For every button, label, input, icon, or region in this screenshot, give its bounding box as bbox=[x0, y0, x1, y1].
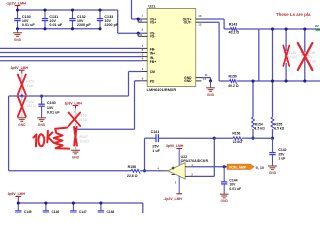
svg-text:GND: GND bbox=[184, 79, 192, 83]
svg-text:0.01 uF: 0.01 uF bbox=[229, 187, 241, 191]
wire OUT- to R150 bbox=[202, 21, 220, 23]
pin 7 FB- bbox=[141, 47, 147, 49]
wire OUT+ net to right edge bbox=[237, 28, 320, 30]
red X over R151 bbox=[18, 75, 26, 95]
svg-text:1 kΩ: 1 kΩ bbox=[26, 84, 34, 88]
capacitor C145 (clipped) bbox=[17, 203, 19, 210]
svg-text:GND: GND bbox=[221, 199, 229, 203]
svg-text:GND: GND bbox=[14, 38, 22, 42]
pin 13 OUT+ bbox=[196, 18, 202, 20]
wire PD net bbox=[135, 80, 142, 82]
wire CM net left drop bbox=[8, 96, 10, 171]
svg-text:R150: R150 bbox=[229, 74, 237, 78]
resistor R154 1.5 kohm bbox=[252, 81, 254, 117]
resistor R156 10 kohm bbox=[233, 137, 242, 141]
pin 15 VS- bbox=[141, 35, 147, 37]
ground under R157 bbox=[71, 149, 80, 151]
junction feedback tap bbox=[213, 137, 216, 140]
junction C133 bottom bbox=[98, 27, 101, 30]
wire -1p2V rail drop to VS- pins bbox=[117, 10, 119, 33]
wire feedback drop to pin 3 bbox=[213, 138, 215, 176]
wire GND bottom rail of cap bank bbox=[18, 28, 101, 30]
pin 5 IN- bbox=[141, 56, 147, 58]
svg-text:0.01 uF: 0.01 uF bbox=[47, 110, 60, 114]
pin 3 IN+ bbox=[185, 175, 190, 177]
pin 2 V- bbox=[178, 176, 180, 193]
svg-text:GND: GND bbox=[72, 155, 80, 159]
svg-text:C148: C148 bbox=[107, 210, 115, 213]
plus input mark bbox=[172, 167, 175, 169]
svg-text:2200 pF: 2200 pF bbox=[104, 23, 118, 27]
red X over C136 bbox=[298, 43, 313, 70]
svg-text:GND: GND bbox=[269, 171, 277, 175]
junction L2 top bbox=[271, 27, 274, 30]
junction C132 top bbox=[71, 8, 74, 11]
ground under C142 bbox=[268, 165, 277, 167]
red X over R153 bbox=[69, 113, 81, 127]
capacitor C148 (clipped) bbox=[100, 203, 102, 210]
wire OUT- net to right edge bbox=[237, 80, 320, 82]
svg-text:CM: CM bbox=[150, 70, 155, 74]
junction C146 top bbox=[44, 201, 47, 204]
wire CM net horizontal bbox=[9, 95, 129, 97]
junction C145 top bbox=[17, 201, 20, 204]
svg-text:R156: R156 bbox=[232, 131, 240, 135]
capacitor C142 1uF bbox=[272, 138, 274, 152]
svg-text:0.01 uF: 0.01 uF bbox=[49, 23, 62, 27]
svg-text:25V: 25V bbox=[152, 145, 159, 149]
junction C132 bottom bbox=[71, 27, 74, 30]
wire GND pins join bbox=[202, 77, 211, 79]
handwritten annotation 10k resistor bbox=[33, 128, 69, 149]
capacitor C147 (clipped) bbox=[72, 203, 74, 210]
capacitor C144 0.01uF bbox=[223, 167, 225, 182]
resistor R151 1 kohm (DNP ghost) bbox=[21, 74, 23, 78]
resistor R152 100 ohm (DNP ghost) bbox=[21, 96, 23, 100]
junction R151/R152/CM wire bbox=[20, 94, 23, 97]
junction GND pins bbox=[209, 79, 212, 82]
pin 2 CM bbox=[141, 71, 147, 73]
junction L2 bottom bbox=[271, 79, 274, 82]
pin 4 FB+ bbox=[141, 60, 147, 62]
svg-text:-1p2V_LMH: -1p2V_LMH bbox=[6, 1, 26, 5]
wire VS+ supply from top edge bbox=[131, 0, 133, 19]
resistor R155 1.5 kohm bbox=[271, 117, 275, 129]
svg-text:3p9V_LMH: 3p9V_LMH bbox=[11, 66, 29, 70]
junction U22 out bbox=[223, 165, 226, 168]
svg-text:VS+: VS+ bbox=[150, 21, 156, 25]
ground under C140 bbox=[37, 117, 46, 119]
svg-text:13: 13 bbox=[198, 14, 202, 18]
svg-text:C141: C141 bbox=[151, 130, 160, 134]
capacitor C136 3.7pF (DNP ghost) bbox=[304, 29, 306, 53]
pin 11 GND bbox=[196, 77, 202, 79]
svg-text:FB+: FB+ bbox=[150, 60, 156, 64]
ground under R152 bbox=[17, 117, 26, 119]
svg-text:GND: GND bbox=[207, 93, 215, 97]
svg-text:C146: C146 bbox=[52, 210, 60, 213]
wire CM net bottom run bbox=[9, 170, 131, 172]
svg-text:3p9V_LMH: 3p9V_LMH bbox=[8, 192, 26, 196]
svg-text:VCM_AMP: VCM_AMP bbox=[229, 165, 247, 169]
junction C141/R158 bbox=[143, 169, 146, 172]
pin 4 IN- (apex) bbox=[164, 170, 168, 172]
wire R156 to divider bbox=[242, 137, 253, 139]
junction R145 bottom bbox=[285, 79, 288, 82]
red X over R157 (handwritten emphasis) bbox=[74, 127, 77, 146]
svg-text:9, 10: 9, 10 bbox=[256, 166, 264, 170]
resistor R153 10 kohm (DNP ghost) bbox=[75, 109, 77, 112]
pin 16 VS+ bbox=[141, 21, 147, 23]
ground under C144 bbox=[220, 193, 229, 195]
inductor L (left, between OUT+ and OUT-) bbox=[258, 29, 260, 81]
wire C141 left riser bbox=[144, 138, 146, 171]
capacitor C133 bbox=[99, 10, 101, 19]
wire IN+ net to left edge bbox=[0, 52, 141, 54]
wire IN- net to left edge bbox=[0, 56, 141, 58]
svg-text:OPA376AIDCKR: OPA376AIDCKR bbox=[181, 159, 209, 163]
wire R153 to PD riser bbox=[76, 128, 135, 130]
svg-text:10 kΩ: 10 kΩ bbox=[288, 55, 297, 59]
svg-text:3p9V_LMH: 3p9V_LMH bbox=[65, 101, 83, 105]
junction C140 top bbox=[40, 94, 43, 97]
minus input mark bbox=[172, 174, 175, 176]
resistor R150 40.2 ohm bbox=[230, 80, 237, 84]
junction C148 top bbox=[99, 201, 102, 204]
capacitor C130 bbox=[17, 10, 19, 19]
junction VS- pins bbox=[137, 32, 140, 35]
junction R145 top bbox=[285, 27, 288, 30]
resistor R143 40.2 ohm bbox=[230, 28, 237, 32]
pin 6 IN+ bbox=[141, 52, 147, 54]
junction R155 bottom bbox=[271, 137, 274, 140]
wire U22 V+ pin 5 bbox=[178, 149, 180, 166]
junction C130 bottom bbox=[16, 27, 19, 30]
pin 1 VS+ bbox=[141, 18, 147, 20]
pin 12 OUT- bbox=[196, 21, 202, 23]
svg-text:LMH6401IRMXR: LMH6401IRMXR bbox=[147, 87, 177, 92]
svg-text:C140: C140 bbox=[47, 101, 56, 105]
svg-text:R157: R157 bbox=[80, 135, 88, 139]
wire R158 to op-amp bbox=[140, 170, 164, 172]
svg-text:0.01 uF: 0.01 uF bbox=[22, 23, 35, 27]
resistor R145 10 kohm (DNP ghost) bbox=[285, 29, 287, 51]
wire -1p2V top rail bbox=[18, 9, 118, 11]
power flag -1p2V_LMH (U22) bbox=[176, 193, 182, 195]
svg-text:2200 pF: 2200 pF bbox=[77, 23, 91, 27]
pin 14 GND bbox=[196, 80, 202, 82]
pin 3 VS- bbox=[141, 32, 147, 34]
wire FB+ net to left edge bbox=[0, 60, 141, 62]
junction C136 top bbox=[303, 27, 306, 30]
svg-text:11: 11 bbox=[205, 73, 208, 77]
junction R154 bottom bbox=[251, 137, 254, 140]
svg-text:R143: R143 bbox=[229, 22, 237, 26]
ground at U21 GND pins bbox=[210, 81, 212, 88]
junction C131 bottom bbox=[43, 27, 46, 30]
pin 1 OUT bbox=[185, 166, 190, 168]
wire OUT+ to R143 bbox=[202, 18, 225, 20]
svg-text:GND: GND bbox=[38, 123, 46, 127]
svg-text:10 kΩ: 10 kΩ bbox=[78, 118, 87, 122]
op-amp U21 LMH6401 body bbox=[147, 9, 196, 87]
junction C130 top bbox=[16, 8, 19, 11]
capacitor C131 bbox=[44, 10, 46, 19]
svg-text:These Ls are pla: These Ls are pla bbox=[276, 12, 311, 17]
wire FB- net to left edge bbox=[0, 47, 141, 49]
net label VCM_AMP bbox=[227, 164, 254, 169]
wire 3p9V bottom rail bbox=[18, 202, 143, 204]
junction VS+ pins bbox=[137, 17, 140, 20]
svg-text:10 kΩ: 10 kΩ bbox=[80, 140, 90, 144]
red X over R152 bbox=[18, 97, 26, 117]
svg-text:GND: GND bbox=[18, 123, 26, 127]
junction C133 top bbox=[98, 8, 101, 11]
svg-text:10 kΩ: 10 kΩ bbox=[233, 140, 242, 144]
op-amp U22 OPA376 triangle bbox=[168, 163, 185, 179]
inductor L (second) / R155 branch vertical bbox=[272, 29, 274, 117]
resistor R157 10 kohm (DNP ghost) bbox=[75, 129, 77, 132]
wire bottom rail drop at right bbox=[142, 203, 144, 213]
svg-text:U2: U2 bbox=[315, 24, 319, 28]
junction C131 top bbox=[43, 8, 46, 11]
red X over R145 bbox=[283, 46, 289, 67]
svg-text:10V: 10V bbox=[47, 106, 54, 110]
svg-text:C147: C147 bbox=[79, 210, 87, 213]
svg-text:1.5 kΩ: 1.5 kΩ bbox=[255, 127, 265, 131]
junction C136 bottom bbox=[303, 79, 306, 82]
wire OUT to VCM_AMP bbox=[190, 166, 227, 168]
svg-text:40.2 Ω: 40.2 Ω bbox=[228, 84, 239, 88]
svg-text:C145: C145 bbox=[24, 210, 32, 213]
capacitor C132 bbox=[72, 10, 74, 19]
resistor R158 22.6 ohm bbox=[131, 169, 140, 173]
pin 9 PD bbox=[141, 80, 147, 82]
svg-text:100 Ω: 100 Ω bbox=[26, 104, 36, 108]
junction R154 top bbox=[251, 79, 254, 82]
svg-text:U21: U21 bbox=[148, 4, 155, 8]
svg-text:R158: R158 bbox=[128, 165, 136, 169]
svg-text:1 uF: 1 uF bbox=[152, 149, 160, 153]
svg-text:12: 12 bbox=[198, 23, 202, 27]
svg-text:VS-: VS- bbox=[150, 35, 156, 39]
svg-text:40.2 Ω: 40.2 Ω bbox=[229, 31, 240, 35]
svg-text:PD: PD bbox=[150, 79, 155, 83]
ground under C130 bbox=[17, 29, 19, 33]
svg-text:22.6 Ω: 22.6 Ω bbox=[127, 174, 138, 178]
svg-text:OUT-: OUT- bbox=[184, 21, 192, 25]
capacitor C146 (clipped) bbox=[45, 203, 47, 210]
svg-text:-1p2V_LMH: -1p2V_LMH bbox=[163, 197, 182, 201]
wire CM net bbox=[129, 71, 142, 73]
svg-text:3p9V_LMH: 3p9V_LMH bbox=[166, 144, 184, 148]
svg-text:1.5 kΩ: 1.5 kΩ bbox=[274, 127, 284, 131]
svg-text:1 uF: 1 uF bbox=[278, 157, 285, 161]
junction R153/R157/PD bbox=[74, 128, 77, 131]
junction C147 top bbox=[72, 201, 75, 204]
capacitor C140 0.01uF bbox=[41, 96, 43, 104]
